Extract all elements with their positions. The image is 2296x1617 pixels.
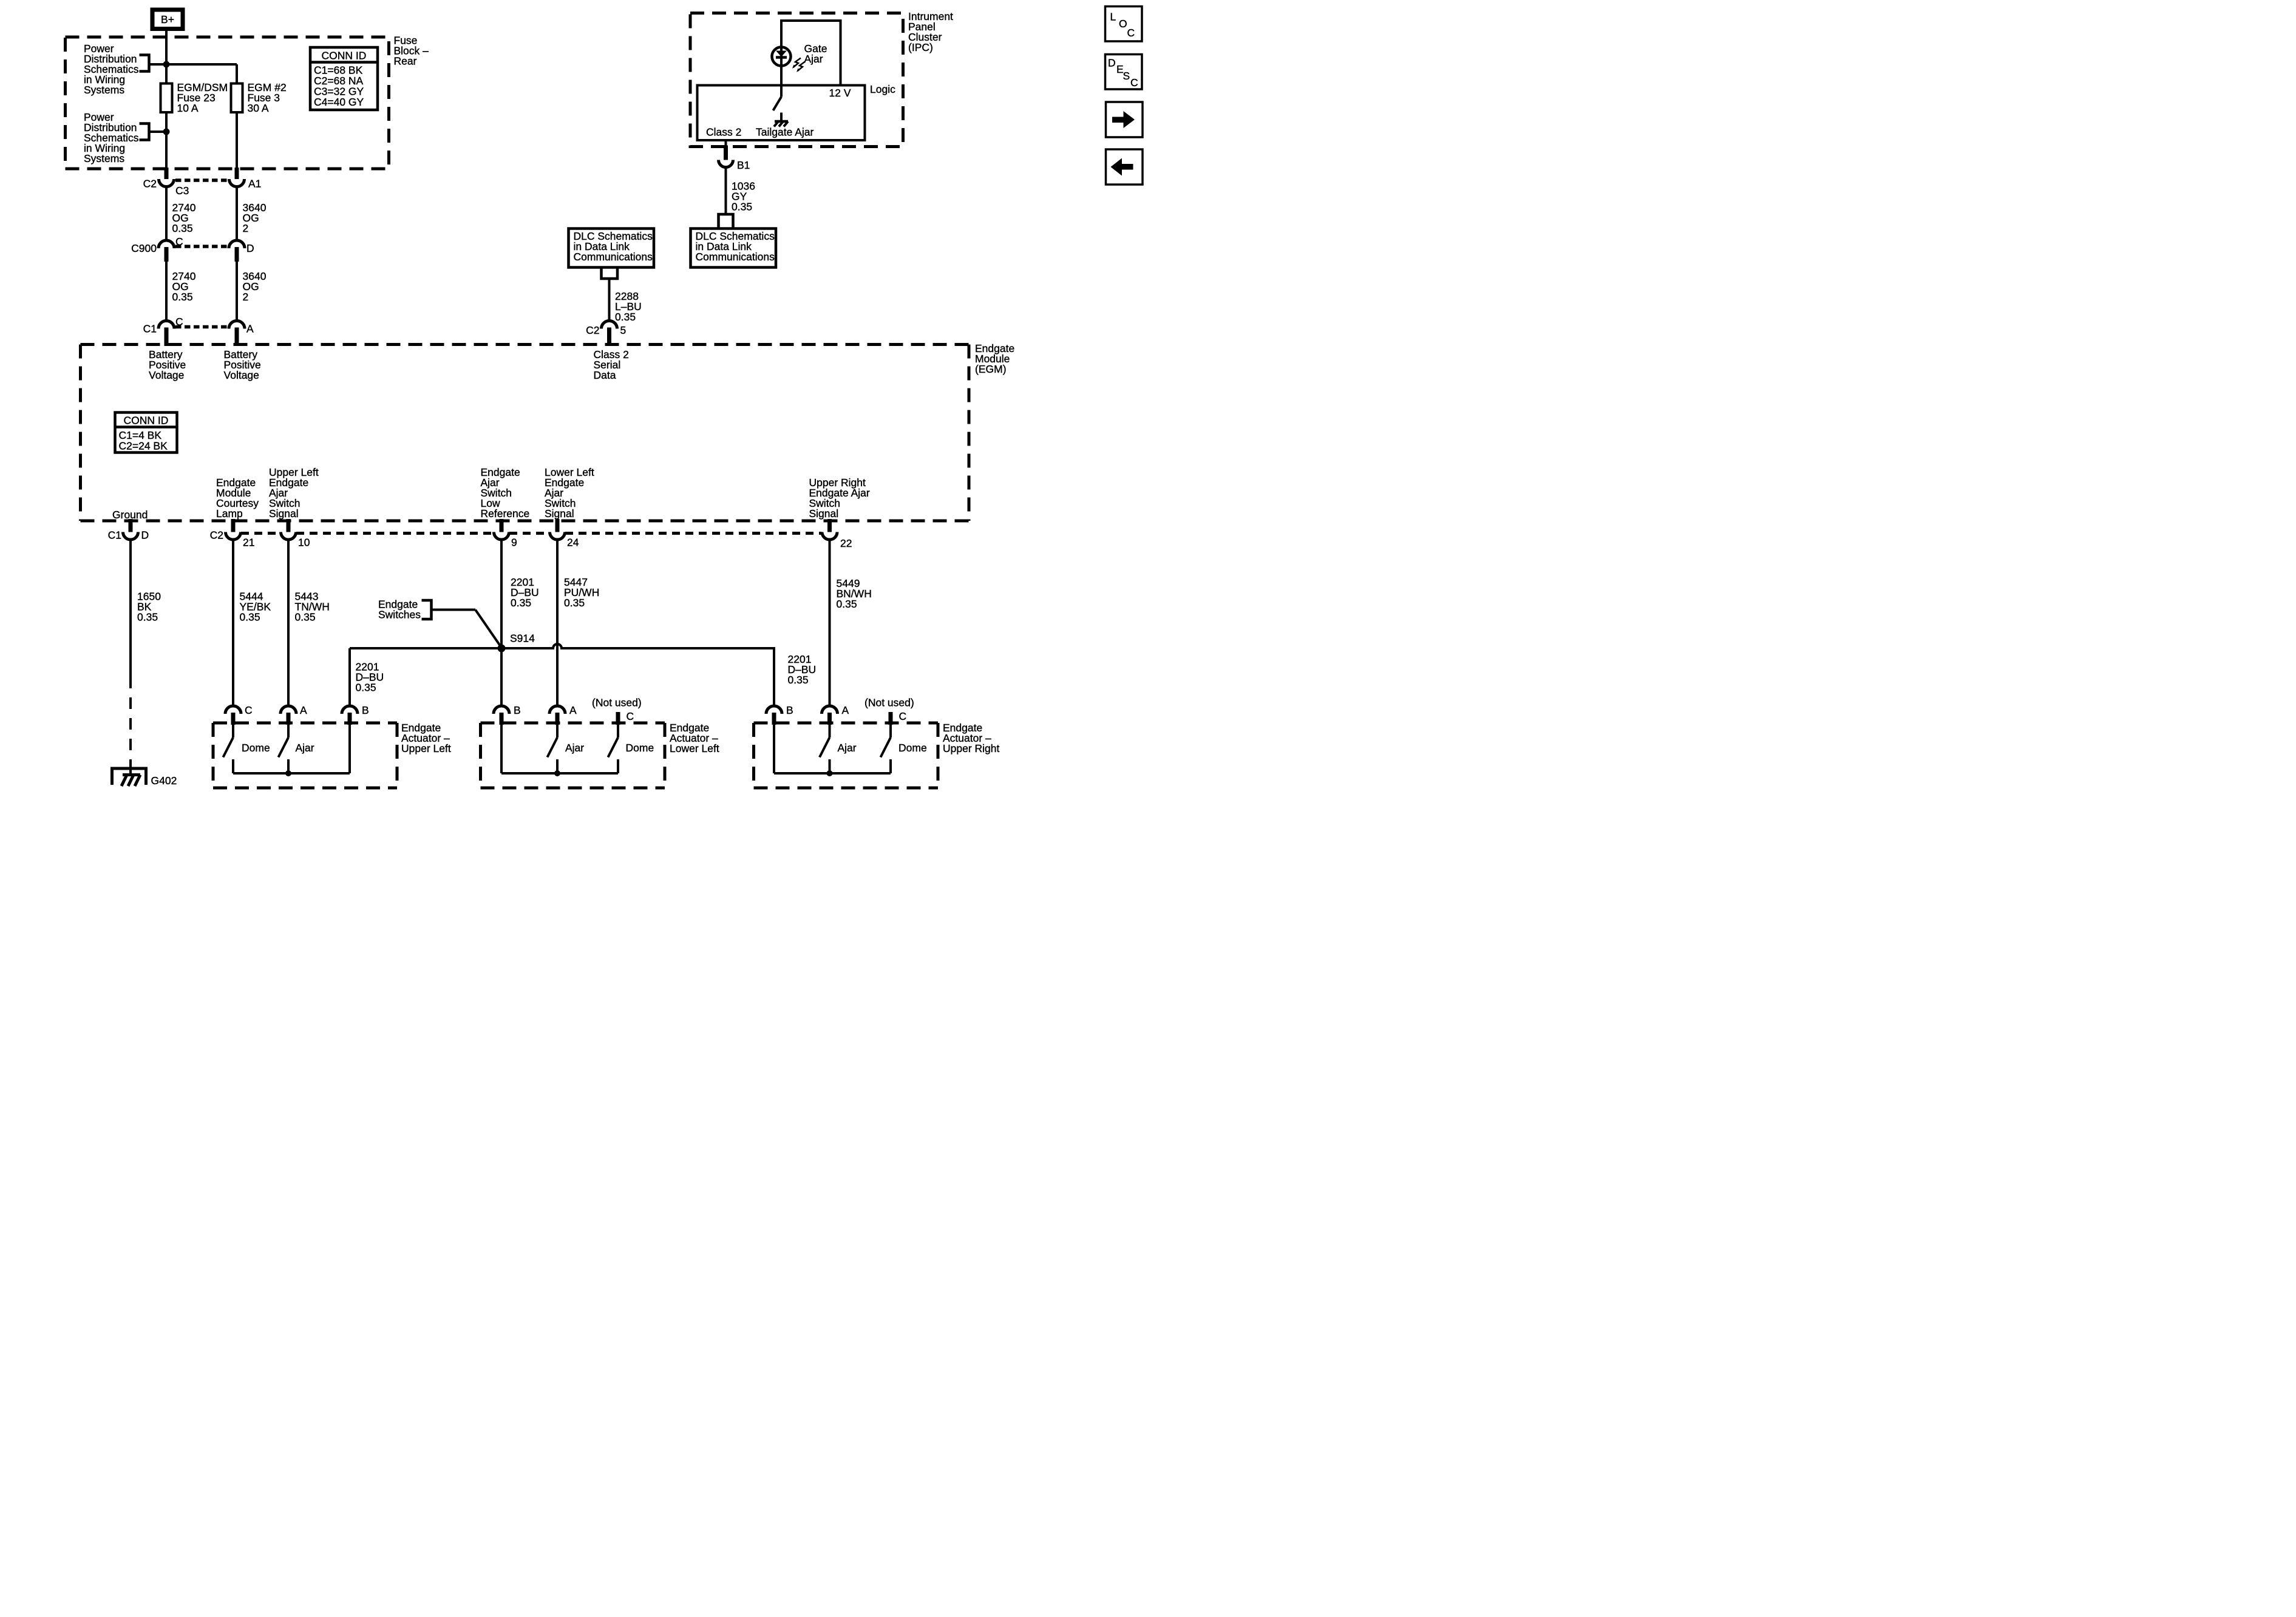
battery feed B+ terminal bbox=[152, 10, 183, 29]
connector C2 pin 5 into EGM bbox=[586, 321, 626, 347]
button back arrow bbox=[1106, 149, 1143, 185]
label circuit 5443 bbox=[295, 591, 330, 623]
splice bus actuator Upper Right bbox=[827, 770, 833, 776]
svg-text:(EGM): (EGM) bbox=[975, 363, 1007, 375]
svg-text:C: C bbox=[245, 704, 253, 716]
wire 5444 YE/BK bbox=[231, 540, 236, 706]
svg-text:B: B bbox=[786, 704, 793, 716]
label Endgate Switches bbox=[378, 598, 421, 621]
wire 5447 PU/WH bbox=[555, 540, 560, 706]
svg-text:0.35: 0.35 bbox=[172, 222, 193, 234]
svg-text:C: C bbox=[1130, 76, 1138, 89]
svg-text:C: C bbox=[627, 710, 634, 722]
wire 5443 TN/WH bbox=[286, 540, 291, 706]
wire LED to switch bbox=[779, 66, 784, 97]
power distribution note 1 bbox=[84, 42, 139, 96]
label Lower Left Endgate Ajar Switch Signal bbox=[545, 466, 594, 520]
wire pin B to bus actuator Upper Right bbox=[772, 725, 776, 773]
svg-text:B: B bbox=[514, 704, 521, 716]
wire 5449 BN/WH bbox=[827, 540, 832, 706]
switch Dome actuator Upper Right bbox=[881, 725, 927, 773]
label G402 bbox=[151, 775, 177, 787]
wire 1650 BK dashed bbox=[128, 677, 133, 768]
wire pair dash C3-A1 bbox=[175, 177, 228, 184]
DLC schematics box right bbox=[691, 229, 776, 268]
ground G402 symbol bbox=[112, 768, 146, 786]
svg-text:10 A: 10 A bbox=[177, 102, 199, 114]
wire S914 down to actuator bbox=[499, 648, 504, 706]
svg-text:30 A: 30 A bbox=[248, 102, 269, 114]
label Ground bbox=[112, 509, 148, 521]
svg-text:22: 22 bbox=[840, 537, 852, 549]
svg-text:A: A bbox=[569, 704, 577, 716]
DLC schematics box left bbox=[569, 229, 654, 268]
svg-text:Dome: Dome bbox=[898, 742, 927, 754]
button next arrow bbox=[1106, 102, 1143, 137]
label circuit 3640 lower bbox=[243, 270, 267, 303]
wire 1650 BK upper bbox=[128, 540, 133, 677]
wire fuse 3 to A1 bbox=[234, 114, 239, 169]
svg-text:O: O bbox=[1119, 18, 1127, 30]
connector pin C (not used) actuator Upper Right bbox=[864, 697, 914, 725]
conn id table fuse block bbox=[310, 47, 378, 110]
label 12 V bbox=[829, 87, 851, 99]
svg-text:G402: G402 bbox=[151, 775, 177, 787]
svg-text:0.35: 0.35 bbox=[240, 611, 260, 623]
label circuit 2201 branch right bbox=[788, 653, 817, 686]
svg-text:12 V: 12 V bbox=[829, 87, 851, 99]
wire 3640 upper bbox=[234, 187, 239, 241]
svg-text:0.35: 0.35 bbox=[564, 597, 585, 609]
wire 2288 L-BU bbox=[607, 279, 612, 321]
connector B1 IPC bbox=[719, 146, 750, 172]
svg-text:CONN ID: CONN ID bbox=[322, 50, 367, 62]
svg-text:B: B bbox=[362, 704, 369, 716]
label Class 2 IPC bbox=[706, 126, 741, 138]
svg-text:Dome: Dome bbox=[242, 742, 270, 754]
connector pin 10 upper left ajar signal bbox=[281, 519, 310, 549]
wire pin B to bus actuator Upper Left bbox=[347, 725, 352, 773]
wire 2740 lower bbox=[164, 262, 169, 321]
wire endgate switches to S914 bbox=[432, 610, 501, 646]
svg-text:0.35: 0.35 bbox=[511, 597, 531, 609]
label circuit 1650 BK bbox=[137, 591, 161, 623]
svg-text:D: D bbox=[141, 529, 149, 541]
svg-text:Systems: Systems bbox=[84, 152, 124, 164]
splice bus actuator Lower Left bbox=[554, 770, 560, 776]
power distribution note 2 bbox=[84, 111, 139, 164]
svg-text:C900: C900 bbox=[131, 242, 157, 254]
bus bar actuator Lower Left bbox=[501, 771, 618, 776]
switch Dome actuator Upper Left bbox=[223, 725, 270, 773]
svg-text:C3=32 GY: C3=32 GY bbox=[314, 86, 364, 98]
svg-text:0.35: 0.35 bbox=[137, 611, 158, 623]
svg-text:C: C bbox=[1127, 27, 1135, 39]
svg-text:Tailgate Ajar: Tailgate Ajar bbox=[756, 126, 814, 138]
connector A1 fuse block bbox=[229, 168, 262, 190]
svg-text:C1: C1 bbox=[143, 323, 157, 335]
connector C1 pin D ground bbox=[108, 519, 149, 541]
label Endgate Actuator Lower Left bbox=[670, 722, 719, 754]
node junction fuse feed bbox=[163, 61, 170, 68]
wire pin B to bus actuator Lower Left bbox=[499, 725, 504, 773]
bracket note 1 bbox=[140, 55, 149, 72]
wire 1650 BK lower bbox=[128, 768, 133, 776]
button LOC bbox=[1106, 7, 1143, 42]
svg-text:Dome: Dome bbox=[626, 742, 654, 754]
wire pair dash C-D bbox=[175, 243, 228, 250]
connector C1 pin C into EGM bbox=[143, 316, 183, 346]
wire note2 to node bbox=[149, 129, 167, 134]
label circuit 3640 upper bbox=[243, 202, 267, 234]
wire S914 branch right with hop bbox=[501, 644, 774, 706]
fuse F3 EGM #2 bbox=[231, 84, 243, 113]
svg-text:C3: C3 bbox=[175, 185, 189, 197]
svg-text:C2=24 BK: C2=24 BK bbox=[119, 440, 168, 452]
svg-text:C: C bbox=[899, 710, 907, 722]
switch Ajar actuator Upper Left bbox=[279, 725, 314, 773]
svg-text:0.35: 0.35 bbox=[356, 682, 376, 694]
svg-text:CONN ID: CONN ID bbox=[124, 415, 169, 427]
svg-text:Upper Left: Upper Left bbox=[401, 742, 451, 754]
svg-text:Systems: Systems bbox=[84, 84, 124, 96]
connector pin B actuator Lower Left bbox=[494, 704, 521, 725]
label Endgate Actuator Upper Left bbox=[401, 722, 451, 754]
svg-text:Voltage: Voltage bbox=[149, 369, 184, 381]
label Endgate Module (EGM) bbox=[975, 342, 1014, 375]
svg-text:0.35: 0.35 bbox=[172, 291, 193, 303]
label Intrument Panel Cluster (IPC) bbox=[908, 10, 953, 53]
connector C900 pin D bbox=[229, 240, 254, 262]
svg-text:C1=4 BK: C1=4 BK bbox=[119, 429, 162, 441]
bracket endgate switches bbox=[422, 600, 432, 619]
wire fuse 23 to C2 bbox=[164, 114, 169, 169]
fuse F23 EGM/DSM bbox=[161, 84, 172, 113]
label Logic bbox=[870, 83, 895, 95]
svg-text:Logic: Logic bbox=[870, 83, 895, 95]
svg-text:(IPC): (IPC) bbox=[908, 41, 933, 53]
svg-text:Data: Data bbox=[594, 369, 616, 381]
wire class2 out of logic bbox=[724, 140, 729, 155]
label circuit 2201 pin 9 bbox=[511, 576, 539, 609]
label circuit 2740 lower bbox=[172, 270, 196, 303]
svg-text:5: 5 bbox=[620, 324, 627, 336]
wire to EGM #2 fuse bbox=[166, 64, 237, 84]
label circuit 2201 branch left bbox=[356, 661, 384, 694]
connector pin C (not used) actuator Lower Left bbox=[592, 697, 642, 725]
svg-text:Ajar: Ajar bbox=[296, 742, 314, 754]
svg-text:(Not used): (Not used) bbox=[592, 697, 642, 709]
fuse block box (Fuse Block - Rear) bbox=[66, 37, 389, 169]
svg-text:Communications: Communications bbox=[574, 251, 653, 263]
connector C2/C3 fuse block bbox=[143, 168, 189, 197]
svg-text:A: A bbox=[842, 704, 849, 716]
label circuit 5449 bbox=[837, 577, 872, 610]
svg-text:C2: C2 bbox=[210, 529, 223, 541]
svg-text:21: 21 bbox=[243, 537, 254, 549]
svg-text:B1: B1 bbox=[737, 159, 750, 171]
svg-text:S914: S914 bbox=[510, 632, 535, 645]
connector pin B actuator Upper Right bbox=[766, 704, 793, 725]
label Endgate Actuator Upper Right bbox=[943, 722, 1000, 754]
svg-text:Ajar: Ajar bbox=[838, 742, 857, 754]
label Fuse Block - Rear bbox=[394, 35, 429, 67]
svg-text:10: 10 bbox=[298, 537, 310, 549]
svg-text:C2: C2 bbox=[143, 178, 157, 190]
wire 1036 GY bbox=[724, 168, 729, 215]
svg-text:24: 24 bbox=[567, 537, 579, 549]
node junction fuse 23 output bbox=[163, 129, 170, 135]
svg-text:Switches: Switches bbox=[378, 609, 421, 621]
actuator box Upper Right bbox=[754, 723, 939, 788]
svg-text:E: E bbox=[1116, 63, 1124, 75]
connector pin C actuator Upper Left bbox=[225, 704, 253, 725]
bus bar actuator Upper Right bbox=[774, 771, 891, 776]
svg-text:B+: B+ bbox=[161, 13, 174, 25]
switch tailgate ajar bbox=[773, 97, 782, 121]
svg-text:A1: A1 bbox=[248, 178, 261, 190]
svg-text:L: L bbox=[1110, 11, 1116, 23]
endgate module box (EGM) bbox=[81, 345, 970, 521]
wire B+ to fuse 23 bbox=[164, 31, 169, 84]
bracket below DLC left bbox=[602, 268, 618, 279]
svg-text:C1=68 BK: C1=68 BK bbox=[314, 64, 363, 76]
label Endgate Ajar Switch Low Reference bbox=[481, 466, 530, 520]
logic box IPC bbox=[698, 86, 865, 141]
svg-text:9: 9 bbox=[511, 537, 517, 549]
bracket note 2 bbox=[140, 124, 149, 140]
label Endgate Module Courtesy Lamp bbox=[216, 476, 259, 520]
instrument panel cluster box (IPC) bbox=[690, 13, 903, 147]
wire note1 to node bbox=[149, 62, 167, 67]
label Class 2 Serial Data bbox=[594, 348, 629, 381]
svg-text:Signal: Signal bbox=[545, 507, 574, 520]
svg-text:2: 2 bbox=[243, 222, 249, 234]
svg-text:0.35: 0.35 bbox=[732, 201, 752, 213]
splice S914 bbox=[498, 645, 506, 653]
svg-text:D: D bbox=[246, 242, 254, 254]
label Tailgate Ajar bbox=[756, 126, 814, 138]
wire pair dash C-A bbox=[175, 324, 228, 330]
connector pin A actuator Upper Right bbox=[822, 704, 849, 725]
label fuse 3 bbox=[248, 81, 287, 114]
label fuse 23 bbox=[177, 81, 228, 114]
svg-text:Upper Right: Upper Right bbox=[943, 742, 1000, 754]
svg-text:Lower Left: Lower Left bbox=[670, 742, 719, 754]
svg-text:Communications: Communications bbox=[696, 251, 775, 263]
switch Dome actuator Lower Left bbox=[608, 725, 654, 773]
svg-text:Ajar: Ajar bbox=[804, 53, 823, 65]
label battery positive voltage 1 bbox=[149, 348, 186, 381]
connector strip dashes bbox=[241, 531, 822, 537]
label Upper Right Endgate Ajar Switch Signal bbox=[809, 476, 870, 520]
lamp branch wires bbox=[781, 21, 841, 86]
label circuit 1036 GY bbox=[732, 180, 755, 213]
splice bus actuator Upper Left bbox=[285, 770, 291, 776]
connector pin A actuator Upper Left bbox=[280, 704, 307, 725]
svg-text:Rear: Rear bbox=[394, 55, 417, 67]
connector C2 pin 21 courtesy lamp bbox=[210, 519, 255, 549]
svg-text:Class 2: Class 2 bbox=[706, 126, 741, 138]
svg-text:C2: C2 bbox=[586, 324, 599, 336]
label circuit 5444 bbox=[240, 591, 271, 623]
svg-text:Signal: Signal bbox=[269, 507, 299, 520]
svg-text:A: A bbox=[300, 704, 307, 716]
svg-text:Reference: Reference bbox=[481, 507, 530, 520]
connector pin 24 lower left ajar signal bbox=[550, 519, 579, 549]
switch Ajar actuator Upper Right bbox=[820, 725, 857, 773]
connector C1 pin A into EGM bbox=[229, 321, 254, 347]
connector pin 22 upper right ajar signal bbox=[822, 519, 852, 549]
label Upper Left Endgate Ajar Switch Signal bbox=[269, 466, 319, 520]
svg-text:2: 2 bbox=[243, 291, 249, 303]
svg-text:Voltage: Voltage bbox=[224, 369, 259, 381]
bracket above DLC right bbox=[719, 214, 733, 229]
connector pin 9 low reference bbox=[494, 519, 517, 549]
connector pin A actuator Lower Left bbox=[549, 704, 577, 725]
label battery positive voltage 2 bbox=[224, 348, 261, 381]
connector C900 pin C bbox=[131, 236, 183, 262]
lamp glow arrows bbox=[792, 58, 805, 73]
svg-text:C4=40 GY: C4=40 GY bbox=[314, 96, 364, 108]
actuator box Lower Left bbox=[481, 723, 665, 788]
label circuit 2740 upper bbox=[172, 202, 196, 234]
svg-text:0.35: 0.35 bbox=[295, 611, 316, 623]
wire 3640 lower bbox=[234, 262, 239, 321]
conn id table EGM bbox=[115, 413, 177, 453]
wire 2740 upper bbox=[164, 187, 169, 241]
svg-text:D: D bbox=[1108, 57, 1116, 69]
svg-text:0.35: 0.35 bbox=[788, 674, 809, 686]
button DESC bbox=[1106, 55, 1143, 90]
bus bar actuator Upper Left bbox=[233, 771, 350, 776]
label circuit 2288 L-BU bbox=[615, 290, 642, 323]
switch Ajar actuator Lower Left bbox=[548, 725, 585, 773]
label circuit 5447 bbox=[564, 576, 599, 609]
indicator lamp Gate Ajar LED bbox=[772, 47, 791, 66]
label Gate Ajar bbox=[804, 42, 827, 65]
wire 2201 pin 9 to S914 bbox=[499, 540, 504, 648]
svg-text:A: A bbox=[246, 323, 254, 335]
internal ground IPC bbox=[774, 121, 788, 127]
connector pin B actuator Upper Left bbox=[342, 704, 369, 725]
svg-text:(Not used): (Not used) bbox=[864, 697, 914, 709]
svg-text:C1: C1 bbox=[108, 529, 121, 541]
svg-text:Lamp: Lamp bbox=[216, 507, 243, 520]
svg-text:0.35: 0.35 bbox=[837, 598, 857, 610]
svg-text:0.35: 0.35 bbox=[615, 311, 636, 323]
svg-text:Ajar: Ajar bbox=[565, 742, 584, 754]
svg-text:C2=68 NA: C2=68 NA bbox=[314, 75, 364, 87]
wire S914 branch left bbox=[350, 648, 501, 706]
svg-text:Signal: Signal bbox=[809, 507, 839, 520]
label S914 bbox=[510, 632, 535, 645]
svg-text:S: S bbox=[1123, 70, 1130, 82]
actuator box Upper Left bbox=[213, 723, 397, 788]
